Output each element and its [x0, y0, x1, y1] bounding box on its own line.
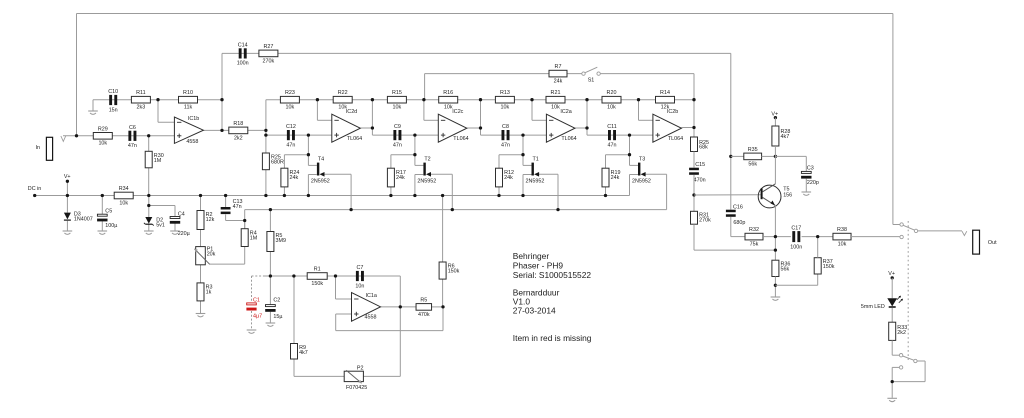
svg-text:12k: 12k — [206, 217, 215, 223]
svg-text:R34: R34 — [119, 186, 129, 192]
svg-text:15µ: 15µ — [273, 314, 282, 320]
svg-text:20k: 20k — [207, 252, 216, 258]
svg-text:R16: R16 — [443, 90, 453, 96]
svg-text:C6: C6 — [129, 125, 136, 131]
svg-text:4k7: 4k7 — [299, 350, 308, 356]
svg-text:Out: Out — [988, 240, 997, 246]
svg-text:47n: 47n — [393, 142, 402, 148]
svg-text:47n: 47n — [128, 143, 137, 149]
svg-text:4558: 4558 — [186, 139, 198, 145]
svg-text:10n: 10n — [355, 283, 364, 289]
svg-text:2N5952: 2N5952 — [526, 178, 545, 184]
svg-text:24k: 24k — [554, 79, 563, 85]
svg-text:V+: V+ — [64, 174, 71, 180]
svg-text:R7: R7 — [555, 64, 562, 70]
svg-text:C12: C12 — [286, 124, 296, 130]
svg-text:47n: 47n — [286, 142, 295, 148]
svg-text:2N5952: 2N5952 — [417, 178, 436, 184]
svg-text:2k2: 2k2 — [234, 135, 243, 141]
svg-text:Behringer: Behringer — [513, 251, 550, 261]
svg-text:P2: P2 — [357, 365, 364, 371]
svg-text:56k: 56k — [748, 161, 757, 167]
svg-text:220p: 220p — [807, 180, 819, 186]
svg-text:C15: C15 — [695, 162, 705, 168]
svg-text:47n: 47n — [233, 204, 242, 210]
svg-text:R1: R1 — [314, 267, 321, 273]
svg-text:150k: 150k — [311, 281, 323, 287]
svg-text:T1: T1 — [533, 157, 539, 163]
svg-text:R10: R10 — [183, 90, 193, 96]
svg-text:TL064: TL064 — [347, 136, 362, 142]
svg-text:24k: 24k — [504, 175, 513, 181]
svg-text:11k: 11k — [184, 105, 193, 111]
svg-text:C10: C10 — [108, 89, 118, 95]
svg-text:R23: R23 — [285, 90, 295, 96]
svg-text:S1: S1 — [588, 78, 595, 84]
svg-text:R29: R29 — [98, 126, 108, 132]
svg-text:Serial: S1000515522: Serial: S1000515522 — [513, 270, 592, 280]
svg-text:10k: 10k — [286, 105, 295, 111]
svg-text:IC2c: IC2c — [452, 109, 463, 115]
svg-text:R35: R35 — [748, 147, 758, 153]
svg-text:T2: T2 — [424, 157, 430, 163]
svg-text:10k: 10k — [338, 105, 347, 111]
svg-text:15n: 15n — [109, 107, 118, 113]
svg-text:C4: C4 — [178, 211, 185, 217]
svg-text:IC1b: IC1b — [188, 116, 199, 122]
svg-text:R5: R5 — [420, 297, 427, 303]
svg-text:680R: 680R — [271, 160, 284, 166]
svg-text:1M: 1M — [250, 235, 258, 241]
svg-text:47n: 47n — [501, 142, 510, 148]
svg-text:C16: C16 — [733, 205, 743, 211]
svg-text:IC2d: IC2d — [346, 109, 357, 115]
svg-text:R14: R14 — [660, 90, 670, 96]
svg-text:10k: 10k — [444, 105, 453, 111]
svg-text:In: In — [36, 145, 41, 151]
svg-text:270k: 270k — [699, 217, 711, 223]
svg-text:75k: 75k — [750, 242, 759, 248]
svg-text:10k: 10k — [501, 105, 510, 111]
svg-text:2k2: 2k2 — [897, 330, 906, 336]
svg-text:5v1: 5v1 — [156, 222, 165, 228]
svg-text:IC1a: IC1a — [366, 293, 377, 299]
svg-text:C11: C11 — [607, 124, 617, 130]
svg-text:100n: 100n — [790, 244, 802, 250]
svg-text:T5: T5 — [783, 187, 789, 193]
svg-text:1M: 1M — [154, 158, 162, 164]
svg-text:Item in red is missing: Item in red is missing — [513, 333, 592, 343]
svg-text:10k: 10k — [607, 105, 616, 111]
svg-text:TL064: TL064 — [561, 136, 576, 142]
svg-text:56k: 56k — [781, 267, 790, 273]
svg-text:R20: R20 — [607, 90, 617, 96]
svg-text:C7: C7 — [356, 265, 363, 271]
svg-text:5mm LED: 5mm LED — [861, 304, 885, 310]
svg-text:IC2a: IC2a — [560, 109, 571, 115]
svg-text:4k7: 4k7 — [781, 134, 790, 140]
svg-text:R21: R21 — [551, 90, 561, 96]
svg-text:150k: 150k — [448, 269, 460, 275]
svg-text:10k: 10k — [119, 200, 128, 206]
svg-text:R18: R18 — [233, 121, 243, 127]
svg-text:C5: C5 — [105, 208, 112, 214]
svg-text:4µ7: 4µ7 — [253, 314, 262, 320]
svg-text:C1: C1 — [253, 298, 260, 304]
svg-text:T3: T3 — [639, 157, 645, 163]
svg-text:470k: 470k — [418, 312, 430, 318]
svg-text:1N4007: 1N4007 — [74, 216, 93, 222]
svg-text:DC in: DC in — [28, 186, 41, 192]
svg-text:100µ: 100µ — [105, 223, 117, 229]
svg-text:R38: R38 — [837, 227, 847, 233]
svg-text:680p: 680p — [733, 220, 745, 226]
svg-text:24k: 24k — [396, 175, 405, 181]
svg-text:C9: C9 — [394, 124, 401, 130]
svg-text:R27: R27 — [263, 44, 273, 50]
svg-text:V+: V+ — [888, 271, 895, 277]
svg-text:R32: R32 — [749, 227, 759, 233]
svg-text:R22: R22 — [338, 90, 348, 96]
svg-text:12k: 12k — [661, 105, 670, 111]
svg-text:68k: 68k — [699, 145, 708, 151]
svg-text:T4: T4 — [318, 157, 324, 163]
svg-text:2N5952: 2N5952 — [311, 178, 330, 184]
svg-text:2N5952: 2N5952 — [632, 178, 651, 184]
svg-text:R11: R11 — [136, 90, 146, 96]
svg-text:10k: 10k — [393, 105, 402, 111]
svg-text:270k: 270k — [263, 58, 275, 64]
svg-text:1k: 1k — [206, 290, 212, 296]
svg-text:C14: C14 — [238, 43, 248, 49]
svg-text:10k: 10k — [551, 105, 560, 111]
svg-text:2k3: 2k3 — [137, 105, 146, 111]
svg-text:C17: C17 — [791, 225, 801, 231]
svg-text:10k: 10k — [838, 242, 847, 248]
svg-text:220µ: 220µ — [178, 231, 190, 237]
svg-text:470n: 470n — [694, 178, 706, 184]
svg-text:47n: 47n — [608, 142, 617, 148]
svg-text:C3: C3 — [807, 166, 814, 172]
svg-text:4558: 4558 — [365, 315, 377, 321]
svg-text:100n: 100n — [237, 61, 249, 67]
svg-text:TL064: TL064 — [668, 136, 683, 142]
svg-text:C8: C8 — [502, 124, 509, 130]
svg-text:F070425: F070425 — [346, 385, 367, 391]
svg-text:24k: 24k — [290, 175, 299, 181]
svg-text:C2: C2 — [273, 298, 280, 304]
svg-text:R13: R13 — [500, 90, 510, 96]
svg-text:10k: 10k — [98, 141, 107, 147]
svg-text:TL064: TL064 — [453, 136, 468, 142]
svg-text:27-03-2014: 27-03-2014 — [513, 306, 556, 316]
svg-text:3M9: 3M9 — [276, 238, 287, 244]
svg-text:156: 156 — [783, 193, 792, 199]
svg-text:R15: R15 — [392, 90, 402, 96]
svg-text:24k: 24k — [611, 175, 620, 181]
svg-text:150k: 150k — [823, 264, 835, 270]
